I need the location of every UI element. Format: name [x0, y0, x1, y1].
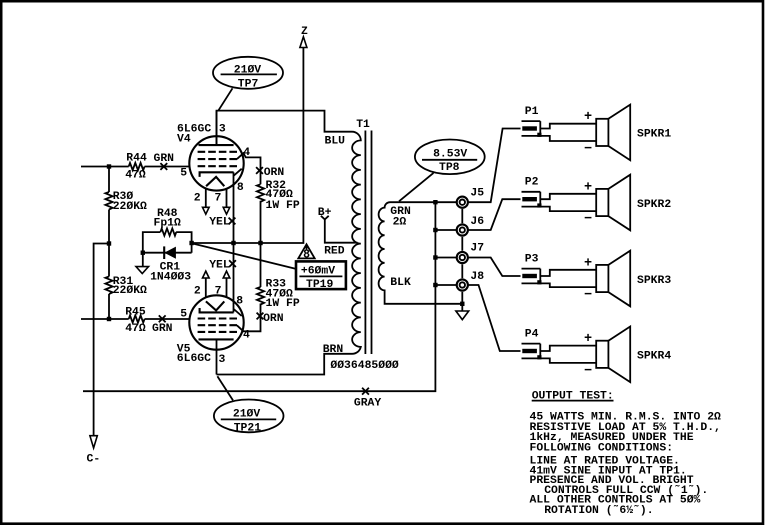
svg-text:BLU: BLU [325, 136, 346, 148]
svg-text:RED: RED [324, 245, 345, 257]
svg-text:3: 3 [219, 123, 226, 135]
svg-text:21ØV: 21ØV [234, 64, 262, 76]
svg-text:R44: R44 [126, 153, 147, 165]
svg-text:GRN: GRN [152, 323, 173, 335]
svg-text:TP21: TP21 [234, 422, 262, 434]
svg-text:T1: T1 [356, 119, 370, 131]
svg-text:−: − [584, 288, 592, 303]
svg-text:+: + [584, 332, 592, 347]
svg-text:+: + [584, 180, 592, 195]
svg-text:3: 3 [219, 354, 226, 366]
svg-text:SPKR2: SPKR2 [637, 199, 671, 211]
svg-text:4: 4 [243, 330, 250, 342]
svg-text:YEL: YEL [209, 216, 230, 228]
svg-text:8: 8 [303, 249, 310, 262]
svg-text:SPKR1: SPKR1 [637, 129, 671, 141]
svg-text:GRN: GRN [154, 153, 175, 165]
svg-text:SPKR3: SPKR3 [637, 275, 671, 287]
svg-text:SPKR4: SPKR4 [637, 351, 671, 363]
svg-text:BRN: BRN [323, 344, 344, 356]
svg-text:R45: R45 [125, 307, 146, 319]
svg-text:22ØKΩ: 22ØKΩ [113, 285, 147, 297]
svg-text:47Ω: 47Ω [125, 323, 146, 335]
svg-text:TP19: TP19 [306, 279, 334, 291]
svg-text:8: 8 [236, 296, 243, 308]
svg-text:ORN: ORN [264, 167, 285, 179]
svg-text:+6ØmV: +6ØmV [301, 265, 335, 277]
svg-text:2Ω: 2Ω [393, 217, 407, 229]
svg-text:−: − [584, 364, 592, 379]
svg-text:J6: J6 [470, 216, 484, 228]
svg-text:TP8: TP8 [439, 162, 460, 174]
svg-text:6L6GC: 6L6GC [177, 353, 211, 365]
svg-text:4: 4 [243, 147, 250, 159]
svg-text:8.53V: 8.53V [433, 148, 467, 160]
svg-text:P1: P1 [525, 106, 539, 118]
svg-text:21ØV: 21ØV [233, 409, 261, 421]
svg-text:+: + [584, 110, 592, 125]
svg-text:YEL: YEL [209, 260, 230, 272]
svg-text:ROTATION (˜6½˜).: ROTATION (˜6½˜). [544, 505, 653, 517]
svg-text:P4: P4 [525, 329, 539, 341]
svg-text:5: 5 [180, 168, 187, 180]
svg-text:Fp1Ω: Fp1Ω [154, 217, 182, 229]
svg-text:−: − [584, 212, 592, 227]
svg-text:ØØ36485ØØØ: ØØ36485ØØØ [330, 360, 399, 372]
svg-text:5: 5 [180, 308, 187, 320]
svg-text:7: 7 [215, 285, 222, 297]
svg-text:8: 8 [237, 182, 244, 194]
svg-text:22ØKΩ: 22ØKΩ [113, 201, 147, 213]
svg-text:BLK: BLK [390, 277, 411, 289]
svg-text:J8: J8 [470, 271, 484, 283]
svg-text:47Ω: 47Ω [125, 170, 146, 182]
svg-text:P3: P3 [525, 254, 539, 266]
svg-text:J7: J7 [470, 243, 484, 255]
svg-text:+: + [584, 256, 592, 271]
svg-text:2: 2 [194, 285, 201, 297]
svg-text:TP7: TP7 [238, 78, 259, 90]
svg-text:−: − [584, 142, 592, 157]
svg-text:1N4ØØ3: 1N4ØØ3 [150, 272, 191, 284]
svg-text:B+: B+ [318, 207, 332, 219]
svg-text:V4: V4 [177, 134, 191, 146]
svg-text:P2: P2 [525, 177, 539, 189]
svg-text:J5: J5 [470, 188, 484, 200]
svg-text:ORN: ORN [263, 313, 284, 325]
svg-text:1W FP: 1W FP [266, 200, 300, 212]
svg-text:1W FP: 1W FP [266, 298, 300, 310]
svg-text:7: 7 [215, 192, 222, 204]
svg-text:FOLLOWING CONDITIONS:: FOLLOWING CONDITIONS: [530, 442, 674, 454]
svg-text:Z: Z [301, 26, 308, 38]
svg-text:GRAY: GRAY [354, 398, 382, 410]
svg-text:2: 2 [194, 192, 201, 204]
svg-text:C-: C- [87, 454, 101, 466]
